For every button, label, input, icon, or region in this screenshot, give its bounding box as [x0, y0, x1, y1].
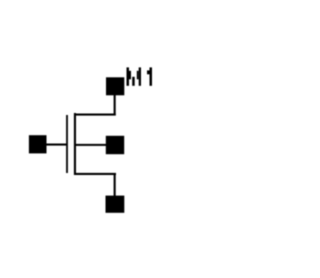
transistor M1 bulk pin (black square) [106, 136, 124, 154]
wire source horizontal segment [75, 173, 116, 175]
wire source vertical segment [114, 174, 116, 196]
transistor M1 gate pin (black square) [29, 135, 47, 153]
label M1 : digit 1 [147, 67, 152, 85]
transistor M1 channel plate [74, 113, 76, 175]
label M1 : letter M [127, 67, 142, 85]
transistor M1 drain pin (black square) [106, 77, 124, 95]
wire bulk lead [76, 144, 107, 146]
wire drain horizontal segment [75, 114, 116, 116]
wire gate lead [46, 144, 67, 146]
wire drain vertical segment [114, 95, 116, 116]
transistor M1 source pin (black square) [106, 196, 125, 213]
transistor M1 gate plate [66, 115, 68, 173]
